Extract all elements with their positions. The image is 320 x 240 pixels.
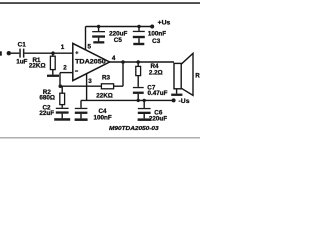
svg-text:22uF: 22uF [39,110,54,117]
svg-text:C3: C3 [152,38,161,45]
svg-text:0.47uF: 0.47uF [148,90,168,97]
svg-text:100nF: 100nF [148,30,166,37]
svg-text:5: 5 [87,43,91,50]
svg-text:1uF: 1uF [16,59,27,66]
svg-text:220uF: 220uF [149,116,167,123]
svg-text:1: 1 [61,44,65,51]
svg-text:2.2Ω: 2.2Ω [149,70,163,77]
svg-text:M90TDA2050-03: M90TDA2050-03 [109,126,159,132]
svg-text:R3: R3 [102,75,111,82]
svg-text:2: 2 [63,65,67,72]
svg-text:R: R [195,73,200,80]
svg-text:+Us: +Us [158,20,171,27]
svg-text:22KΩ: 22KΩ [29,62,46,69]
svg-text:22KΩ: 22KΩ [96,93,113,100]
svg-text:C1: C1 [18,41,27,48]
svg-text:3: 3 [88,78,92,85]
svg-text:C5: C5 [114,37,123,44]
svg-text:4: 4 [112,55,116,62]
svg-text:-Us: -Us [179,98,190,105]
svg-text:100nF: 100nF [93,115,111,122]
svg-text:680Ω: 680Ω [39,94,55,101]
svg-text:TDA2050: TDA2050 [75,58,106,65]
svg-text:+: + [75,51,78,57]
